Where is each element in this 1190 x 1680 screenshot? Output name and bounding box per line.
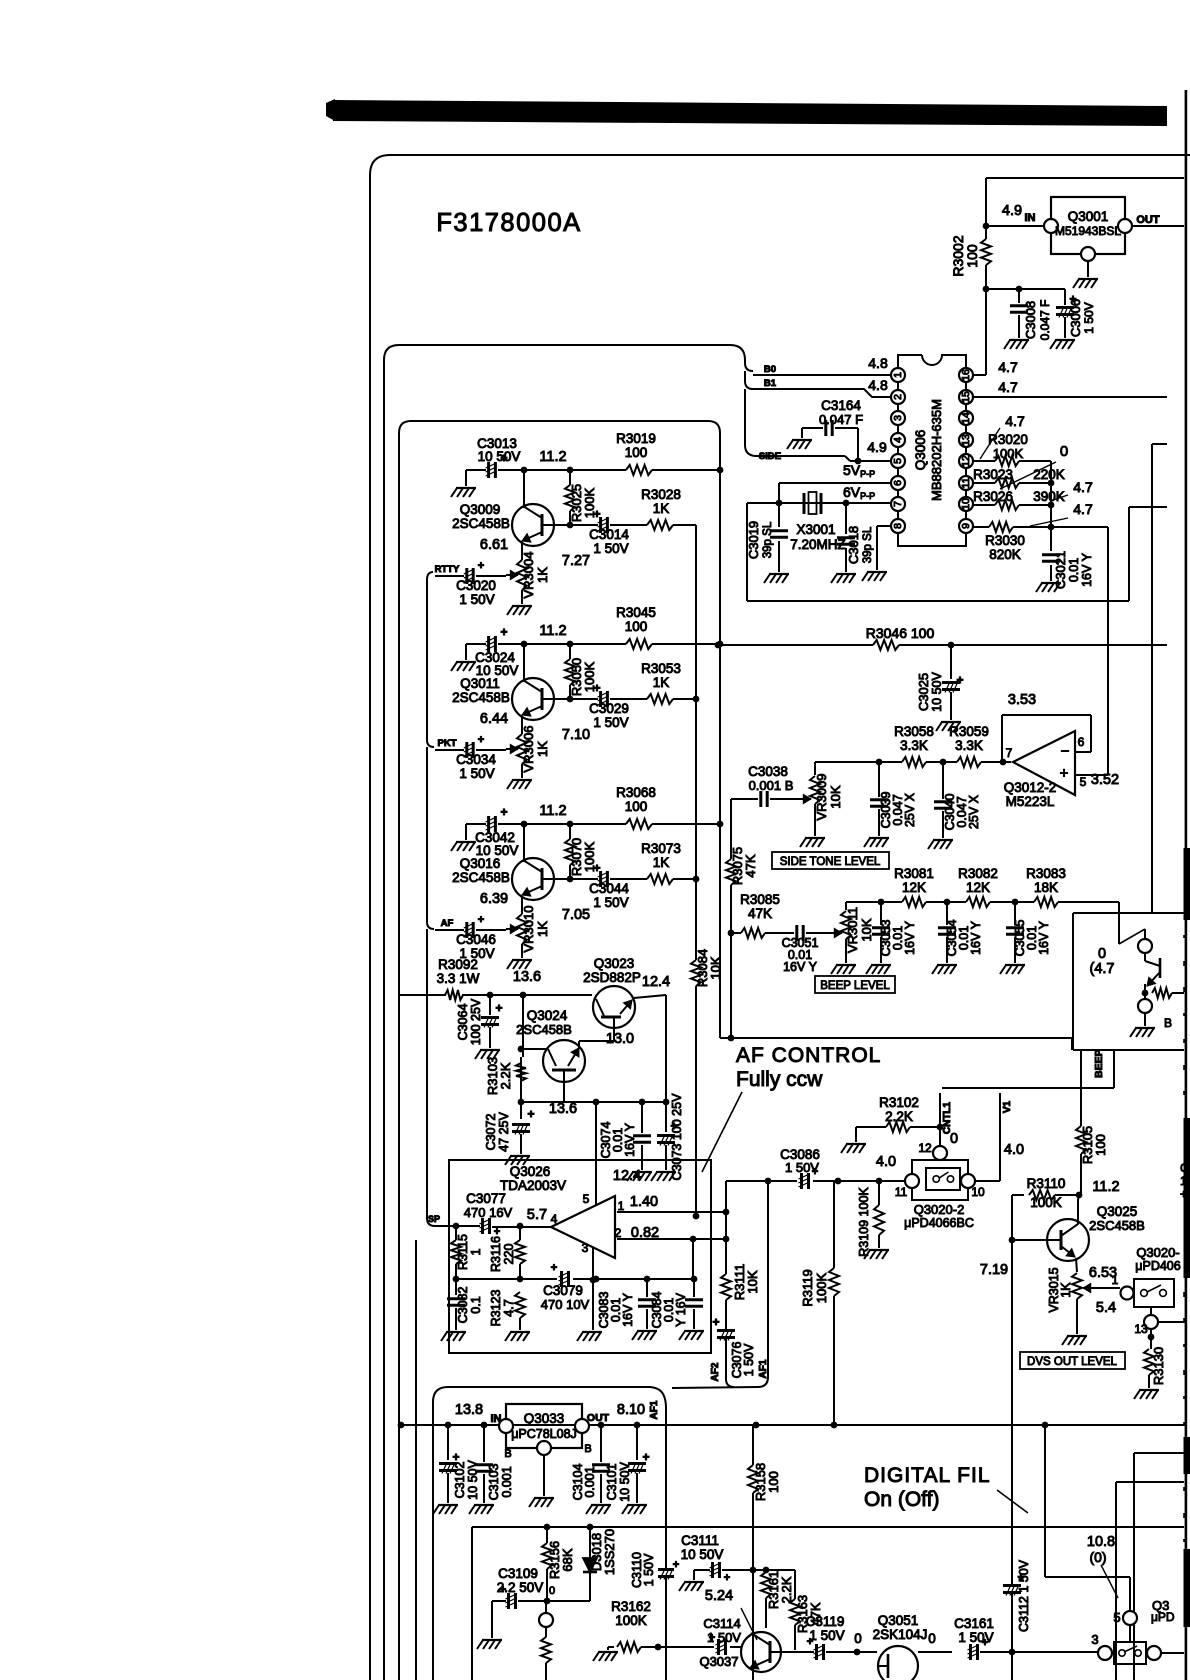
svg-text:AF: AF [441, 918, 454, 929]
svg-text:Q3023: Q3023 [594, 956, 635, 971]
svg-text:+: + [551, 1262, 557, 1274]
svg-text:2SC458B: 2SC458B [452, 516, 510, 531]
svg-text:1 50V: 1 50V [642, 1553, 656, 1586]
svg-text:1K: 1K [653, 501, 670, 516]
svg-text:4.7: 4.7 [502, 1299, 516, 1316]
svg-text:16V Y: 16V Y [1037, 920, 1051, 954]
svg-text:1K: 1K [653, 675, 670, 690]
svg-text:C3018: C3018 [846, 526, 861, 564]
svg-text:+: + [495, 1001, 502, 1015]
svg-text:+: + [593, 681, 600, 695]
svg-text:C3114: C3114 [703, 1616, 740, 1631]
svg-text:5: 5 [892, 458, 904, 464]
svg-text:1K: 1K [535, 921, 550, 937]
svg-text:0.001: 0.001 [583, 1466, 597, 1497]
svg-text:12.4: 12.4 [642, 974, 670, 990]
svg-text:1 50V: 1 50V [593, 895, 628, 910]
svg-text:0: 0 [1060, 443, 1068, 460]
svg-text:R3020: R3020 [988, 432, 1028, 447]
svg-text:R3026: R3026 [973, 489, 1013, 504]
svg-text:1 50V: 1 50V [809, 1628, 844, 1643]
svg-text:7: 7 [892, 501, 904, 507]
svg-text:Q3025: Q3025 [1097, 1204, 1138, 1219]
svg-text:B: B [1164, 1016, 1172, 1030]
svg-text:2.2 50V: 2.2 50V [497, 1580, 544, 1595]
svg-text:R3046 100: R3046 100 [866, 625, 935, 641]
svg-text:Q3037: Q3037 [699, 1654, 738, 1669]
svg-text:0: 0 [549, 1585, 555, 1597]
svg-text:100K: 100K [814, 1272, 829, 1303]
svg-text:C3006: C3006 [1068, 299, 1083, 337]
svg-text:8.10: 8.10 [617, 1402, 645, 1418]
svg-text:AF2: AF2 [710, 1362, 721, 1381]
svg-text:3: 3 [1091, 1632, 1098, 1647]
svg-text:0.001 B: 0.001 B [749, 778, 794, 793]
svg-text:Q3051: Q3051 [878, 1613, 919, 1628]
svg-text:5.24: 5.24 [705, 1588, 733, 1604]
svg-text:+: + [812, 1166, 818, 1178]
svg-text:9: 9 [960, 523, 972, 529]
svg-text:13.6: 13.6 [549, 1101, 577, 1117]
svg-text:μPD4066BC: μPD4066BC [904, 1216, 974, 1230]
svg-text:DVS OUT LEVEL: DVS OUT LEVEL [1027, 1356, 1118, 1368]
svg-text:C3072: C3072 [484, 1114, 498, 1151]
svg-text:47 25V: 47 25V [497, 1112, 511, 1152]
svg-text:10: 10 [960, 498, 972, 510]
svg-text:7: 7 [1006, 746, 1013, 760]
svg-text:VR3010: VR3010 [521, 906, 536, 953]
svg-text:M51943BSL: M51943BSL [1055, 224, 1121, 238]
svg-text:12: 12 [960, 455, 972, 467]
svg-text:Q3033: Q3033 [524, 1411, 565, 1426]
svg-text:3.3K: 3.3K [900, 738, 928, 753]
svg-text:C3102: C3102 [453, 1462, 467, 1499]
svg-text:2SC458B: 2SC458B [452, 690, 510, 705]
svg-text:R3023: R3023 [973, 467, 1013, 482]
svg-text:39p SL: 39p SL [862, 526, 874, 563]
svg-text:1: 1 [618, 1199, 625, 1213]
svg-text:6: 6 [892, 480, 904, 486]
svg-text:C3025: C3025 [916, 673, 931, 711]
svg-text:R3045: R3045 [616, 605, 656, 620]
svg-text:5.7: 5.7 [527, 1207, 547, 1223]
svg-text:C3046: C3046 [456, 932, 496, 947]
svg-text:1K: 1K [653, 855, 670, 870]
svg-text:5: 5 [1080, 775, 1087, 789]
svg-text:2.2K: 2.2K [779, 1576, 794, 1603]
svg-text:1: 1 [1112, 1273, 1119, 1287]
svg-text:R3073: R3073 [641, 841, 681, 856]
svg-text:4.0: 4.0 [876, 1154, 896, 1170]
svg-text:R3028: R3028 [641, 487, 681, 502]
svg-text:100: 100 [1093, 1134, 1108, 1156]
svg-text:2SD882P: 2SD882P [583, 970, 641, 985]
svg-text:IN: IN [1025, 212, 1036, 224]
svg-text:DIGITAL FIL: DIGITAL FIL [864, 1464, 991, 1487]
svg-text:8: 8 [892, 523, 904, 529]
svg-text:10K: 10K [859, 918, 874, 941]
svg-text:11: 11 [960, 477, 972, 488]
svg-text:47K: 47K [743, 854, 758, 877]
svg-text:Q3020-2: Q3020-2 [914, 1202, 965, 1217]
svg-text:16V Y: 16V Y [621, 1292, 635, 1326]
svg-text:0: 0 [1098, 946, 1106, 962]
svg-text:PKT: PKT [438, 738, 457, 749]
svg-text:11: 11 [895, 1185, 908, 1199]
svg-text:+: + [724, 1572, 730, 1584]
svg-text:TDA2003V: TDA2003V [500, 1178, 566, 1193]
svg-text:X3001: X3001 [796, 522, 835, 537]
svg-text:7.27: 7.27 [562, 553, 590, 569]
svg-text:M5223L: M5223L [1006, 794, 1055, 809]
svg-text:C3119: C3119 [806, 1614, 845, 1629]
svg-text:+: + [478, 734, 484, 746]
svg-text:VR3011: VR3011 [845, 907, 860, 953]
svg-text:1: 1 [892, 372, 904, 378]
svg-text:+: + [500, 625, 507, 639]
svg-text:11.2: 11.2 [539, 449, 566, 465]
svg-text:B: B [584, 1443, 591, 1455]
svg-text:C3161: C3161 [954, 1616, 994, 1631]
svg-text:0.01: 0.01 [1067, 558, 1081, 582]
svg-text:16V Y: 16V Y [783, 960, 817, 974]
svg-text:4.7: 4.7 [1073, 501, 1093, 517]
svg-text:4: 4 [892, 437, 904, 443]
svg-text:13: 13 [960, 434, 972, 446]
svg-text:CNTL1: CNTL1 [942, 1101, 953, 1134]
svg-text:R3110: R3110 [1027, 1176, 1066, 1191]
svg-text:6.44: 6.44 [480, 711, 508, 727]
svg-text:10 50V: 10 50V [618, 1462, 632, 1502]
svg-text:C3111: C3111 [681, 1533, 719, 1548]
svg-text:11.2: 11.2 [539, 623, 566, 639]
svg-text:4.7: 4.7 [1073, 479, 1093, 495]
svg-text:1K: 1K [1059, 1282, 1073, 1298]
svg-text:10K: 10K [708, 956, 723, 979]
svg-text:5: 5 [1113, 1610, 1120, 1625]
svg-text:3.53: 3.53 [1008, 692, 1036, 708]
svg-text:On (Off): On (Off) [864, 1488, 939, 1511]
svg-text:4.8: 4.8 [868, 355, 888, 371]
svg-text:3: 3 [582, 1241, 589, 1255]
svg-text:Q3026: Q3026 [510, 1164, 551, 1179]
svg-text:1 50V: 1 50V [958, 1630, 993, 1645]
svg-text:R3123: R3123 [489, 1290, 503, 1327]
svg-text:100: 100 [625, 799, 648, 814]
svg-text:4: 4 [551, 1212, 558, 1226]
svg-text:15: 15 [960, 391, 972, 403]
svg-text:13.0: 13.0 [606, 1031, 634, 1047]
svg-text:R3162: R3162 [611, 1599, 651, 1614]
svg-text:R3083: R3083 [1026, 866, 1066, 881]
svg-text:13.6: 13.6 [513, 969, 541, 985]
svg-text:AF1: AF1 [758, 1359, 769, 1378]
svg-text:47K: 47K [748, 906, 772, 921]
svg-text:0: 0 [854, 1631, 862, 1646]
svg-text:10 50V: 10 50V [930, 672, 944, 712]
svg-text:4.7: 4.7 [1005, 413, 1025, 429]
svg-text:Q3020-: Q3020- [1136, 1245, 1179, 1260]
svg-text:C3019: C3019 [746, 521, 761, 559]
svg-text:0.1: 0.1 [469, 1296, 483, 1313]
svg-text:μPD406: μPD406 [1135, 1259, 1180, 1273]
svg-text:390K: 390K [1033, 489, 1065, 504]
svg-text:100K: 100K [1030, 1195, 1062, 1210]
svg-text:VR3006: VR3006 [521, 726, 536, 773]
svg-text:5.4: 5.4 [1096, 1300, 1116, 1316]
svg-text:12K: 12K [902, 880, 926, 895]
svg-text:1.40: 1.40 [630, 1194, 658, 1210]
svg-text:C3077: C3077 [466, 1191, 506, 1206]
svg-text:1 50V: 1 50V [742, 1343, 756, 1376]
svg-text:R3058: R3058 [894, 724, 934, 739]
svg-text:SP: SP [428, 1214, 440, 1224]
svg-text:Q3006: Q3006 [913, 430, 928, 471]
svg-text:R3102: R3102 [879, 1095, 919, 1110]
svg-text:1: 1 [469, 1248, 483, 1255]
svg-text:1K: 1K [535, 567, 550, 583]
svg-text:OUT: OUT [587, 1412, 610, 1424]
svg-text:+: + [478, 560, 484, 572]
svg-text:16V Y: 16V Y [903, 920, 917, 954]
svg-text:0: 0 [950, 1131, 958, 1147]
svg-text:100: 100 [625, 619, 648, 634]
svg-text:R3053: R3053 [641, 661, 681, 676]
svg-text:5: 5 [583, 1192, 590, 1206]
svg-text:2SC458B: 2SC458B [516, 1022, 572, 1037]
svg-text:6.39: 6.39 [480, 891, 508, 907]
svg-text:10K: 10K [745, 1270, 760, 1293]
svg-text:+: + [593, 861, 600, 875]
svg-text:C3164: C3164 [821, 398, 861, 413]
svg-text:10K: 10K [828, 785, 843, 808]
svg-text:Fully ccw: Fully ccw [736, 1068, 823, 1091]
svg-text:C3038: C3038 [748, 764, 788, 779]
svg-text:+: + [593, 507, 600, 521]
svg-text:13.8: 13.8 [455, 1402, 483, 1418]
svg-text:+: + [956, 673, 963, 687]
svg-text:16: 16 [960, 369, 972, 381]
svg-text:C3044: C3044 [589, 881, 629, 896]
svg-text:+: + [478, 914, 484, 926]
svg-text:100 25V: 100 25V [469, 998, 483, 1045]
svg-text:16V Y: 16V Y [1080, 552, 1094, 586]
svg-text:14: 14 [960, 412, 972, 424]
svg-text:R3081: R3081 [894, 866, 934, 881]
svg-text:Q3016: Q3016 [460, 856, 501, 871]
svg-text:R3092: R3092 [438, 957, 478, 972]
svg-text:10: 10 [971, 1185, 985, 1199]
svg-text:OUT: OUT [1136, 214, 1160, 226]
svg-text:+: + [673, 1559, 679, 1571]
svg-text:4.7: 4.7 [998, 359, 1018, 375]
svg-text:R3085: R3085 [740, 892, 780, 907]
svg-text:C3064: C3064 [456, 1004, 470, 1041]
svg-text:B0: B0 [764, 364, 776, 375]
svg-text:R3115: R3115 [456, 1234, 470, 1270]
svg-text:BEEP LEVEL: BEEP LEVEL [820, 980, 890, 992]
svg-text:+: + [500, 805, 507, 819]
svg-text:2SC458B: 2SC458B [452, 870, 510, 885]
svg-text:R3119: R3119 [800, 1269, 815, 1306]
svg-text:3: 3 [892, 415, 904, 421]
svg-text:C3021: C3021 [1053, 551, 1068, 589]
svg-text:6: 6 [1078, 735, 1085, 749]
svg-text:4.9: 4.9 [867, 439, 887, 455]
svg-text:39p SL: 39p SL [762, 521, 774, 558]
svg-text:820K: 820K [989, 547, 1021, 562]
svg-text:R3130: R3130 [1151, 1347, 1166, 1385]
svg-text:6.61: 6.61 [480, 537, 508, 553]
svg-text:0.001: 0.001 [500, 1466, 514, 1497]
svg-text:C3073 100 25V: C3073 100 25V [670, 1093, 684, 1181]
svg-text:R3109 100K: R3109 100K [857, 1187, 871, 1257]
svg-text:Y 16V: Y 16V [674, 1292, 688, 1326]
svg-text:13: 13 [1134, 1322, 1148, 1336]
svg-text:RTTY: RTTY [435, 564, 460, 575]
svg-text:7.05: 7.05 [562, 907, 590, 923]
svg-text:C3014: C3014 [589, 527, 629, 542]
svg-text:Q3009: Q3009 [460, 502, 501, 517]
svg-text:+: + [712, 1315, 719, 1329]
svg-text:100: 100 [625, 445, 648, 460]
svg-text:10 50V: 10 50V [681, 1547, 724, 1562]
svg-text:+: + [642, 1450, 649, 1464]
svg-text:C3034: C3034 [456, 752, 496, 767]
svg-text:R3068: R3068 [616, 785, 656, 800]
svg-text:+: + [1060, 765, 1069, 782]
svg-text:100K: 100K [615, 1613, 647, 1628]
svg-text:C3101: C3101 [605, 1464, 619, 1501]
svg-text:220K: 220K [1033, 467, 1065, 482]
svg-text:C3020: C3020 [456, 578, 496, 593]
svg-text:Q3001: Q3001 [1068, 209, 1109, 224]
svg-text:16V Y: 16V Y [623, 1122, 637, 1156]
svg-text:25V X: 25V X [967, 794, 981, 829]
svg-text:12K: 12K [966, 880, 990, 895]
svg-text:μPC78L08J: μPC78L08J [511, 1427, 577, 1441]
svg-text:16V Y: 16V Y [969, 920, 983, 954]
svg-text:AF1: AF1 [649, 1400, 660, 1419]
svg-text:(4.7: (4.7 [1090, 961, 1115, 977]
svg-text:Q3012-2: Q3012-2 [1004, 780, 1057, 795]
svg-text:220: 220 [502, 1244, 516, 1265]
svg-text:11.2: 11.2 [1092, 1179, 1119, 1195]
svg-text:BEEP: BEEP [1093, 1049, 1105, 1078]
svg-text:4.8: 4.8 [868, 377, 888, 393]
svg-text:3.3K: 3.3K [955, 738, 983, 753]
svg-text:100: 100 [964, 244, 980, 268]
svg-text:VR3004: VR3004 [521, 552, 536, 599]
svg-text:4.0: 4.0 [1004, 1142, 1024, 1158]
svg-text:MB88202H-635M: MB88202H-635M [929, 399, 944, 501]
svg-text:470 10V: 470 10V [541, 1297, 590, 1312]
svg-text:AF CONTROL: AF CONTROL [736, 1044, 881, 1067]
svg-text:1 50V: 1 50V [1082, 302, 1096, 333]
svg-text:4.7: 4.7 [998, 379, 1018, 395]
svg-text:C3082: C3082 [456, 1287, 470, 1324]
svg-text:2SC458B: 2SC458B [1089, 1218, 1145, 1233]
svg-text:C3109: C3109 [498, 1566, 538, 1581]
svg-text:1 50V: 1 50V [707, 1630, 741, 1645]
svg-text:1 50V: 1 50V [459, 766, 494, 781]
svg-text:11.2: 11.2 [539, 803, 566, 819]
svg-text:R3030: R3030 [985, 533, 1025, 548]
svg-text:1 50V: 1 50V [459, 592, 494, 607]
svg-text:C3103: C3103 [487, 1464, 501, 1501]
svg-text:1K: 1K [535, 741, 550, 757]
svg-text:2: 2 [892, 394, 904, 400]
svg-text:0.047 F: 0.047 F [1038, 300, 1052, 341]
svg-text:12: 12 [918, 1141, 932, 1155]
svg-text:F3178000A: F3178000A [436, 209, 581, 237]
svg-text:B1: B1 [764, 378, 777, 389]
svg-text:Q3011: Q3011 [460, 676, 500, 691]
svg-text:+: + [527, 1107, 534, 1121]
svg-text:100: 100 [766, 1471, 781, 1493]
svg-text:−: − [1061, 743, 1070, 760]
svg-text:C3112 1 50V: C3112 1 50V [1017, 1559, 1031, 1632]
svg-text:2SK104J: 2SK104J [873, 1627, 928, 1642]
svg-text:10 50V: 10 50V [478, 449, 521, 464]
svg-text:VR3009: VR3009 [814, 774, 829, 821]
svg-text:2: 2 [615, 1226, 622, 1240]
svg-text:470 16V: 470 16V [464, 1205, 513, 1220]
svg-text:18K: 18K [1034, 880, 1058, 895]
svg-text:C3029: C3029 [589, 701, 629, 716]
svg-text:R3059: R3059 [949, 724, 989, 739]
svg-text:1 50V: 1 50V [593, 715, 628, 730]
svg-text:1SS270: 1SS270 [602, 1529, 617, 1575]
svg-text:68K: 68K [560, 1548, 575, 1571]
svg-text:1 50V: 1 50V [593, 541, 628, 556]
svg-text:0: 0 [928, 1631, 936, 1646]
svg-text:Q3: Q3 [1152, 1598, 1169, 1613]
svg-text:25V X: 25V X [903, 792, 917, 827]
svg-text:SIDE TONE LEVEL: SIDE TONE LEVEL [780, 856, 881, 868]
svg-text:R3116: R3116 [489, 1236, 503, 1272]
svg-text:2.2K: 2.2K [498, 1062, 513, 1089]
svg-text:7.19: 7.19 [980, 1262, 1008, 1278]
svg-text:4.9: 4.9 [1002, 203, 1022, 219]
svg-text:(0): (0) [1089, 1549, 1106, 1565]
svg-text:100K: 100K [993, 446, 1024, 461]
svg-text:R3019: R3019 [616, 431, 656, 446]
svg-text:R3082: R3082 [958, 866, 998, 881]
svg-text:7.10: 7.10 [562, 727, 590, 743]
svg-text:3.3 1W: 3.3 1W [437, 971, 480, 986]
svg-text:V1: V1 [1002, 1100, 1013, 1113]
svg-text:Q3024: Q3024 [527, 1008, 568, 1023]
svg-text:10.8: 10.8 [1087, 1534, 1115, 1550]
svg-text:B: B [504, 1448, 511, 1460]
svg-text:C3008: C3008 [1023, 301, 1038, 339]
